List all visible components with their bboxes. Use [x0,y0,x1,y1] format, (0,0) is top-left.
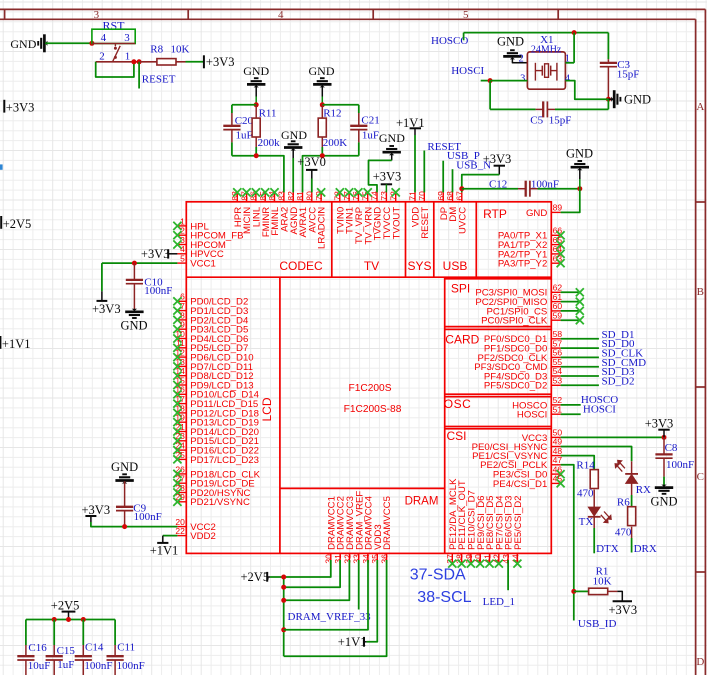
svg-text:C11: C11 [117,641,135,653]
svg-text:36: 36 [380,554,390,564]
svg-text:USB_ID: USB_ID [578,618,617,630]
wire cap bank bus [26,619,115,621]
svg-text:C8: C8 [665,442,678,454]
U1 pin 36 DRAMVCC5 (bottom) [380,496,394,564]
svg-text:3: 3 [124,32,130,44]
capacitor C8 100nF [655,437,694,486]
power flag +1V1 (left edge) [0,336,30,351]
svg-text:3: 3 [520,73,525,84]
U1 pin 27 PD19/LCD_DE (left) [173,474,254,490]
svg-text:DRAM: DRAM [405,496,439,508]
power flag +1V1 (VDD) [396,116,425,135]
svg-text:GND: GND [624,93,651,107]
power flag +3V3 (TVVCC) [373,170,402,193]
U1 pin 78 TVIN0 (top) [333,188,347,234]
svg-text:200K: 200K [323,137,348,149]
svg-text:C20: C20 [235,115,254,127]
wire DRAMVCC5 [284,560,387,656]
svg-text:4: 4 [278,9,284,21]
ground GND (R11 top) [243,64,269,105]
svg-text:VDD2: VDD2 [190,531,216,542]
capacitor C16 10uF [17,620,50,675]
svg-text:DRAMVCC5: DRAMVCC5 [382,496,393,550]
svg-text:GND: GND [120,319,147,333]
wire SPI stub y=320.2 [561,316,584,324]
svg-text:15pF: 15pF [549,114,572,126]
svg-text:4: 4 [101,32,107,44]
U1 pin 55 PF3/SDC0_CMD (right) [474,357,562,373]
svg-text:+3V3: +3V3 [6,101,35,115]
capacitor C20 1uF [223,105,253,156]
svg-text:100nF: 100nF [666,459,694,471]
U1 pin 1 HPL (left) [173,216,209,232]
svg-text:37-SDA: 37-SDA [410,567,466,584]
capacitor C5 15pF [490,81,608,127]
U1 pin 70 RESET (top) [417,191,431,239]
U1 pin 76 TV_VRP (top) [351,188,365,244]
U1 pin 58 PF0/SDC0_D1 (right) [484,329,562,345]
junction R12 top [320,102,325,107]
ground GND (R12 top) [309,64,335,105]
junction bus 630 [281,627,286,632]
svg-text:HOSCI: HOSCI [517,410,547,421]
svg-text:SPI: SPI [451,282,470,296]
net label SD_D2 [561,375,635,387]
svg-text:2: 2 [99,51,105,63]
U1 pin 89 GND (right) [526,203,562,219]
U1 pin 12 PD6/LCD_D10 (left) [173,348,253,364]
power flag +3V3 (VCC1) [92,291,121,316]
svg-text:+1V1: +1V1 [2,337,31,351]
svg-text:GND: GND [379,131,405,145]
power flag +1V1 (VDD2) [150,536,179,558]
U1 pin 79 LRADCIN (top) [314,188,328,249]
svg-text:+3V3: +3V3 [92,302,121,316]
capacitor C10 100nF [126,263,173,311]
capacitor C15 1uF [46,620,76,675]
U1 pin 50 VCC3 (right) [522,428,563,444]
svg-text:R11: R11 [259,107,277,119]
svg-text:+3V3: +3V3 [483,152,512,166]
svg-text:GND: GND [497,35,524,49]
ground GND (C8) [650,485,677,509]
power flag +3V3 (UVCC) [483,152,512,174]
svg-text:15pF: 15pF [617,69,640,81]
U1 pin 16 PD10/LCD_D14 (left) [173,385,259,401]
net label HOSCO (crystal) [431,33,468,48]
wire HOSCI to X1 pin3 [490,80,527,82]
svg-text:PC0/SPI0_CLK: PC0/SPI0_CLK [481,316,548,327]
U1 pin 23 PD15/LCD_D21 (left) [173,431,259,447]
U1 pin 21 PD14/LCD_D20 (left) [173,422,259,438]
svg-text:+1V1: +1V1 [338,635,367,649]
svg-text:USB: USB [443,259,468,273]
U1 pin 85 FMINR (top) [258,188,272,237]
U1 pin 2 HPCOM_FB (left) [173,226,243,242]
svg-text:+3V0: +3V0 [297,155,326,169]
junction R12 bottom [320,153,325,158]
svg-text:CODEC: CODEC [279,259,323,273]
U1 pin 88 HPR (top) [230,188,244,227]
svg-text:200k: 200k [258,137,281,149]
U1 pin 53 PF5/SDC0_D2 (right) [484,376,562,392]
U1 pin 31 DRAMVCC2 (bottom) [333,496,347,564]
U1 pin 5 VCC1 (left) [177,254,215,270]
net label SD_CMD [561,357,647,369]
wire X1 pin1 stub [565,62,574,64]
svg-text:R14: R14 [576,459,595,471]
U1 pin 64 PA2/TP_Y1 (right) [498,244,565,260]
ic U1 F1C200S outline [186,202,551,554]
wire +1V1 to VDD pin [414,135,416,192]
U1 pin 59 PC0/SPI0_CLK (right) [481,310,562,326]
power flag +2V5 (DRAM) [241,570,271,584]
U1 pin 13 PD7/LCD_D11 (left) [173,357,253,373]
svg-text:+3V3: +3V3 [609,603,638,617]
U1 pin 6 PD0/LCD_D2 (left) [173,292,248,308]
wire VCC3 rail [561,436,664,438]
svg-text:+3V3: +3V3 [206,55,235,69]
junction SW1 pin1 a [131,59,136,64]
ground GND (C12) [566,146,593,188]
wire GND to TVGND pin [369,160,392,192]
svg-text:38-SCL: 38-SCL [417,589,471,606]
wire +3V3 to UVCC pin [462,175,500,193]
svg-text:1uF: 1uF [57,659,74,671]
power flag +3V0 (AVCC) [297,155,326,192]
svg-text:SD_D2: SD_D2 [602,375,635,387]
junction UVCC / C12 [459,186,464,191]
junction HOSCI [488,78,493,83]
wire C5 branch [607,99,609,109]
junction bank C14 [81,617,86,622]
U1 pin 82 AGND (top) [286,191,300,235]
svg-text:PF5/SDC0_D2: PF5/SDC0_D2 [484,381,547,392]
svg-text:3: 3 [94,9,100,21]
svg-text:470: 470 [577,488,594,500]
wire VCC1 to +3V3 flag [101,263,103,291]
resistor R1 10K [574,566,618,595]
U1 pin 25 PD17/LCD_D23 (left) [173,450,259,466]
crystal X1 24MHz [518,34,570,89]
svg-text:DRX: DRX [634,543,657,555]
ground GND (crystal right) [608,90,651,108]
svg-text:+3V3: +3V3 [141,247,170,261]
clipped blue mark (left edge) [0,164,3,169]
U1 pin 3 HPCOM (left) [173,235,226,251]
svg-text:2: 2 [518,54,523,65]
svg-text:22: 22 [175,526,185,536]
svg-text:RST: RST [102,19,125,33]
U1 pin 19 PD13/LCD_D19 (left) [173,413,259,429]
svg-text:DTX: DTX [596,543,619,555]
net label SD_D1 [561,329,635,341]
svg-text:VCC1: VCC1 [190,259,216,270]
power flag +3V3 (VCC3) [645,417,674,438]
net label HOSCI (osc) [561,403,617,415]
U1 pin 15 PD9/LCD_D13 (left) [173,375,253,391]
svg-text:GND: GND [526,208,547,219]
led RX [615,461,651,496]
U1 pin 10 PD4/LCD_D6 (left) [173,329,248,345]
U1 pin 35 VDD3 (bottom) [370,524,384,563]
U1 pin 7 PD1/LCD_D3 (left) [173,301,248,317]
wire DRAMVCC4 [284,560,368,630]
capacitor C9 100nF [116,502,162,526]
svg-text:RX: RX [636,484,651,496]
junction bank C15 [52,617,57,622]
wire PE0 to RX [561,447,632,462]
U1 pin 41 PE8/CSI_D5 (bottom) [482,495,496,567]
U1 pin 68 DM (top) [445,191,459,222]
U1 pin 62 PC3/SPI0_MOSI (right) [475,283,562,299]
junction crystal top [572,30,577,35]
svg-text:GND: GND [243,64,269,78]
net label SD_D0 [561,338,635,350]
led TX [579,507,612,553]
U1 pin 38 PE11/CLK_OUT (bottom) [455,480,469,568]
U1 pin 77 TVIN1 (top) [342,188,356,234]
U1 pin 52 HOSCO (right) [512,395,562,411]
U1 pin 49 PE0/CSI_HSYNC (right) [472,437,563,453]
U1 pin 42 PE7/CSI_D4 (bottom) [492,495,506,568]
U1 pin 63 PA3/TP_Y2 (right) [498,253,565,269]
wire R11/C20 bottom to ARA2 [232,156,284,193]
junction VCC3 [662,435,667,440]
U1 pin 33 DRAM_VREF (bottom) [352,491,366,564]
power flag +2V5 (cap bank) [51,598,80,619]
wire HOSCO top rail [464,32,609,34]
junction C3 bottom [606,97,611,102]
net label HOSCO (osc) [561,394,619,406]
svg-text:C5: C5 [530,114,543,126]
wire RTP GND pin 89 [561,189,580,213]
U1 pin 54 PF4/SDC0_D3 (right) [484,366,562,382]
svg-text:470: 470 [615,526,632,538]
svg-text:PD17/LCD_D23: PD17/LCD_D23 [190,455,259,466]
U1 pin 83 ARA2 (top) [277,191,291,232]
power flag +1V1 (VDD3) [338,635,367,649]
junction bus 577 [281,575,286,580]
svg-text:10K: 10K [171,44,190,56]
U1 pin 81 AVRA1 (top) [295,191,309,238]
wire R8 to +3V3 [186,61,204,63]
capacitor C14 100nF [75,620,113,675]
junction at SW1 pin 4 [89,41,94,46]
svg-text:59: 59 [553,310,563,320]
wire SPI stub y=292.3 [561,288,584,296]
wire SPI stub y=301.6 [561,298,584,306]
svg-text:1uF: 1uF [236,130,253,142]
U1 pin 71 VDD (top) [408,191,422,227]
U1 pin 45 PE4/CSI_D1 (right) [493,474,565,490]
U1 pin 57 PF1/SDC0_D0 (right) [484,338,562,354]
svg-text:5: 5 [463,9,469,21]
wire SPI stub y=310.9 [561,307,584,315]
svg-text:+1V1: +1V1 [150,544,179,558]
U1 pin 72 TVOUT (top) [388,188,402,239]
svg-text:C12: C12 [489,178,507,190]
resistor R8 10K [139,44,189,65]
svg-text:1: 1 [125,51,131,63]
U1 pin 17 PD11/LCD_D15 (left) [173,394,258,410]
U1 pin 44 PE5/CSI_D2 (bottom) [510,495,524,567]
switch SW1 RST [92,19,139,63]
svg-text:1uF: 1uF [362,130,379,142]
ground GND (C10) [120,309,147,333]
U1 pin 9 PD3/LCD_D5 (left) [173,320,248,336]
svg-text:5: 5 [180,254,185,264]
svg-text:+2V5: +2V5 [51,598,80,612]
svg-text:GND: GND [111,460,138,474]
U1 pin 51 HOSCI (right) [517,404,562,420]
resistor R11 200k [252,105,280,156]
svg-text:+2V5: +2V5 [3,217,32,231]
svg-text:+3V3: +3V3 [645,417,674,431]
junction R11 top [254,102,259,107]
junction SW1 pin1 b [137,59,142,64]
wire X1 pin4 to GND rail [565,81,608,100]
net label LED_1 [483,560,515,608]
capacitor C3 15pF [600,33,640,100]
U1 pin 56 PF2/SDC0_CLK (right) [477,348,562,364]
junction VCC1 / C10 [132,261,137,266]
svg-text:PD21/VSYNC: PD21/VSYNC [190,497,250,508]
power flag +3V3 (R8) [204,55,235,69]
svg-text:70: 70 [417,191,427,201]
wire top rail to X1 pin 1 [573,33,575,63]
U1 pin 8 PD2/LCD_D4 (left) [173,310,249,326]
U1 pin 28 PD20/HSYNC (left) [173,483,250,499]
svg-text:100nF: 100nF [134,511,162,523]
net label SD_D3 [561,366,635,378]
svg-text:4: 4 [565,73,571,84]
svg-text:53: 53 [553,376,563,386]
svg-text:R12: R12 [323,107,341,119]
ground GND (TVGND) [379,131,405,161]
U1 pin 43 PE6/CSI_D3 (bottom) [501,495,515,563]
power flag +2V5 (left edge) [1,216,31,231]
U1 pin 4 HPVCC (left) [177,244,223,260]
svg-text:GND: GND [566,146,593,160]
wire GND to SW1 pin 4 [45,42,92,44]
svg-text:SYS: SYS [407,259,431,273]
U1 pin 80 AVCC (top) [305,191,319,233]
svg-text:RESET: RESET [420,207,431,239]
svg-text:DRAM_VREF_33: DRAM_VREF_33 [288,611,372,623]
svg-text:PE5/CSI_D2: PE5/CSI_D2 [513,495,524,549]
svg-text:CARD: CARD [445,333,479,347]
wire DRAMVCC3 [284,560,350,600]
svg-text:OSC: OSC [444,397,472,411]
svg-text:LED_1: LED_1 [483,596,515,608]
power flag +3V3 (left edge) [4,100,34,115]
resistor R6 470 [615,495,636,553]
wire VCC2 [91,522,177,527]
net label HOSCI (crystal) [451,65,490,80]
svg-text:GND: GND [281,128,307,142]
svg-text:F1C200S: F1C200S [348,383,391,394]
wire VDD3 [367,560,378,642]
U1 pin 26 PD18/LCD_CLK (left) [173,464,260,480]
U1 pin 34 DRAMVCC4 (bottom) [361,495,375,563]
junction C12 / GND [577,186,582,191]
U1 pin 29 PD21/VSYNC (left) [173,492,250,508]
resistor R12 200K [318,105,347,156]
wire PE1 to R14 [561,456,595,470]
svg-text:HOSCI: HOSCI [583,403,616,415]
U1 pin 60 PC1/SPI0_CS (right) [487,301,563,317]
net label USB_P [443,150,480,192]
svg-text:RTP: RTP [483,207,507,221]
svg-text:C: C [697,471,704,483]
junction C9 / VCC2 [122,524,127,529]
svg-text:10K: 10K [593,575,612,587]
net label SD_CLK [561,348,644,360]
svg-text:CSI: CSI [446,429,466,443]
U1 pin 39 PE10/CSI_D7 (bottom) [464,490,478,567]
U1 pin 75 TV_VRN (top) [360,188,374,244]
U1 pin 84 FMINL (top) [267,188,281,235]
svg-text:TV: TV [364,259,379,273]
svg-text:10uF: 10uF [28,660,51,672]
junction USB_ID / R1 [571,589,576,594]
svg-text:100nF: 100nF [531,178,559,190]
svg-text:100nF: 100nF [144,285,172,297]
wire R12/C21 bottom to AVRA1 [303,156,359,193]
svg-text:67: 67 [455,191,465,201]
wire DRAMVCC1 [284,560,331,577]
U1 pin 69 DP (top) [436,191,450,220]
svg-text:B: B [697,286,704,298]
net label DRAM_VREF_33 [288,560,372,623]
ground GND (AGND pin) [281,128,307,192]
power flag +3V3 (R1) [609,591,638,617]
svg-text:+3V3: +3V3 [82,503,111,517]
svg-text:TX: TX [579,516,594,528]
capacitor C21 1uF [350,105,380,156]
svg-text:+2V5: +2V5 [241,570,270,584]
svg-text:LRADCIN: LRADCIN [317,207,328,249]
U1 pin 73 TVVCC (top) [379,191,393,239]
svg-text:TVOUT: TVOUT [391,207,402,240]
svg-text:A: A [696,101,704,113]
U1 pin 61 PC2/SPI0_MISO (right) [475,292,562,308]
wire VCC1 [102,262,177,264]
U1 pin 67 UVCC (top) [455,191,469,234]
svg-text:HOSCI: HOSCI [451,65,484,77]
net label RESET (switch) [139,62,176,89]
U1 pin 11 PD5/LCD_D7 (left) [173,338,248,354]
svg-text:GND: GND [650,494,677,508]
capacitor C12 100nF [462,178,580,196]
U1 pin 65 PA1/TP_X2 (right) [498,235,565,251]
svg-text:C15: C15 [57,645,76,657]
U1 pin 86 LINL (top) [249,188,263,227]
U1 pin 22 VDD2 (left) [175,526,215,542]
wire SW1 pin2 loop to pin1 [96,62,134,77]
ground GND (X1 pin2) [497,35,527,63]
power flag +3V3 (VCC2) [82,503,111,522]
svg-text:R6: R6 [617,497,630,509]
U1 pin 14 PD8/LCD_D12 (left) [173,366,253,382]
U1 pin 18 PD12/LCD_D18 (left) [173,403,259,419]
power flag +3V3 (HPVCC) [141,247,178,261]
svg-text:R8: R8 [150,44,163,56]
wire R12 top to C21 [322,104,359,106]
svg-text:24MHz: 24MHz [531,45,562,56]
U1 pin 24 PD16/LCD_D22 (left) [173,441,259,457]
